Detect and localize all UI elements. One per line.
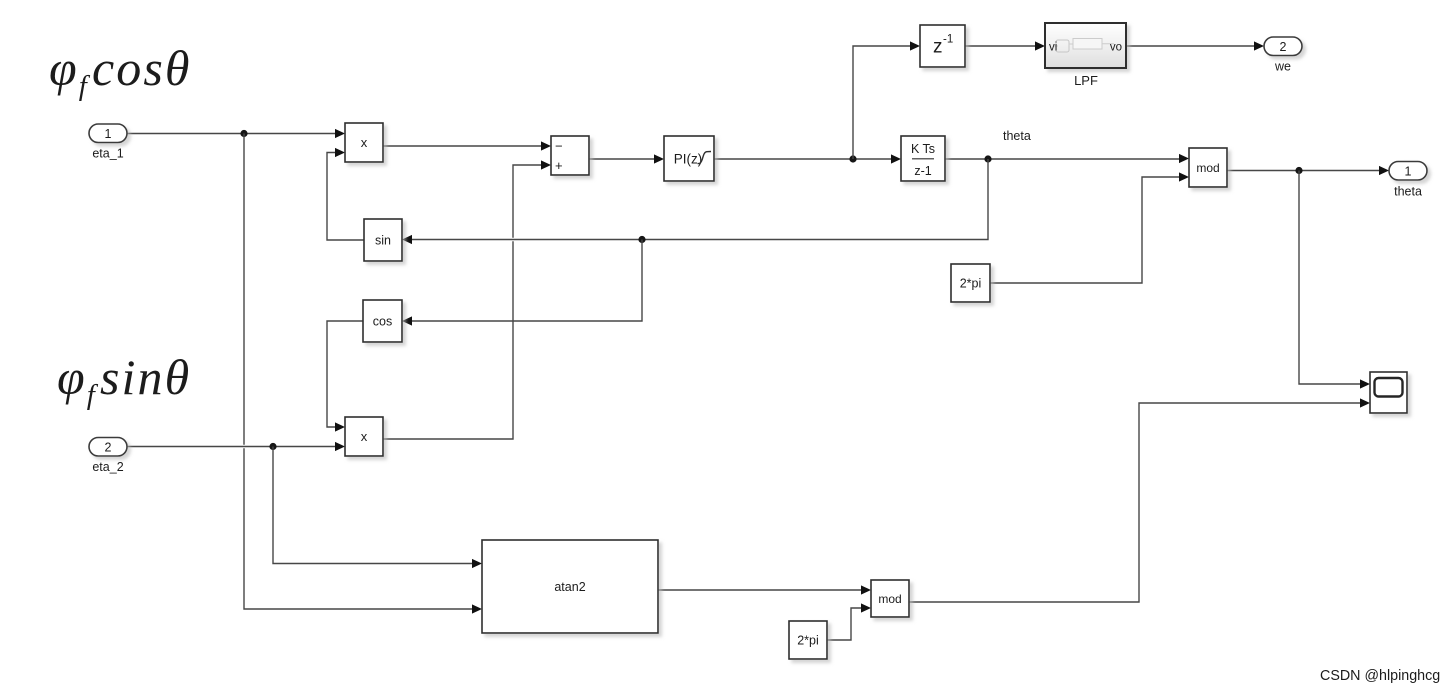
sum block: [551, 136, 589, 175]
product block X2: [345, 417, 383, 456]
svg-text:x: x: [361, 135, 368, 150]
wire LPF output to outport we: [1126, 41, 1264, 50]
junction node on eta_1 wire: [240, 130, 247, 137]
svg-text:CSDN @hlpinghcg: CSDN @hlpinghcg: [1320, 668, 1440, 684]
junction node on theta output wire: [1295, 167, 1302, 174]
wire unit delay output to LPF input: [965, 41, 1045, 50]
svg-text:φfsinθ: φfsinθ: [57, 349, 191, 411]
inport 1 eta_1: [89, 124, 127, 161]
wire sin output to product X1 input2: [327, 148, 364, 240]
svg-text:2*pi: 2*pi: [960, 277, 982, 291]
constant 2*pi second: [789, 621, 827, 659]
outport 1 theta: [1389, 162, 1427, 199]
wire eta_1 branch down to atan2 input2 (gap where it crosses eta_2 wire): [244, 134, 482, 614]
svg-text:theta: theta: [1394, 185, 1422, 199]
discrete integrator K Ts/(z-1) block: [901, 136, 945, 181]
svg-text:eta_1: eta_1: [92, 147, 123, 161]
svg-text:2: 2: [1280, 40, 1287, 54]
svg-text:φfcosθ: φfcosθ: [49, 40, 192, 102]
svg-text:atan2: atan2: [554, 580, 585, 594]
svg-text:we: we: [1274, 60, 1291, 74]
svg-text:+: +: [555, 158, 563, 173]
junction node on feedback wire: [638, 236, 645, 243]
svg-text:eta_2: eta_2: [92, 460, 123, 474]
unit delay z^-1 block: [920, 25, 965, 67]
wire eta_2 branch down to atan2 input1: [273, 447, 482, 569]
wire branch up to unit delay z-1 input: [853, 41, 920, 159]
svg-text:mod: mod: [878, 592, 901, 606]
svg-text:vi: vi: [1049, 42, 1057, 54]
svg-text:x: x: [361, 429, 368, 444]
svg-text:z: z: [933, 37, 943, 58]
mod block mod2: [871, 580, 909, 617]
svg-text:cos: cos: [373, 315, 392, 329]
PI(z) discrete PID block: [664, 136, 714, 181]
junction node on PI output wire: [849, 155, 856, 162]
cos block: [363, 300, 402, 342]
svg-text:theta: theta: [1003, 129, 1031, 143]
svg-text:−: −: [555, 139, 563, 154]
svg-text:1: 1: [105, 127, 112, 141]
wire atan2 output to mod2 input1: [658, 585, 871, 594]
wire mod2 output up to scope input2: [909, 398, 1370, 602]
wire constant 2*pi2 to mod2 input2: [827, 603, 871, 640]
wire feedback branch down to cos input: [402, 240, 642, 326]
wire mod1 output to outport theta: [1227, 166, 1389, 175]
svg-text:LPF: LPF: [1074, 73, 1098, 88]
product block X1: [345, 123, 383, 162]
svg-text:2: 2: [105, 440, 112, 454]
wire constant 2*pi to mod1 input2: [990, 172, 1189, 283]
wire branch down to scope input1: [1299, 171, 1370, 389]
wire eta_2 to product X2 input2: [127, 442, 345, 451]
svg-text:1: 1: [1405, 164, 1412, 178]
wire product X2 output to sum plus input (gap where it crosses sin wire): [383, 160, 551, 439]
wire feedback branch down and left to sin input: [402, 159, 988, 244]
svg-text:2*pi: 2*pi: [797, 634, 819, 648]
LPF subsystem block: [1045, 23, 1126, 88]
svg-text:mod: mod: [1196, 161, 1219, 175]
sin block: [364, 219, 402, 261]
junction node after K Ts output: [984, 155, 991, 162]
atan2 block: [482, 540, 658, 633]
mod block mod1: [1189, 148, 1227, 187]
svg-text:sin: sin: [375, 234, 391, 248]
wire product X1 output to sum minus input: [383, 141, 551, 150]
inport 2 eta_2: [89, 438, 127, 475]
svg-text:K Ts: K Ts: [911, 142, 935, 156]
wire K Ts output to mod1 input1: [945, 154, 1189, 163]
constant 2*pi: [951, 264, 990, 302]
svg-text:z-1: z-1: [914, 164, 931, 178]
wire eta_1 to product X1 input1: [127, 129, 345, 138]
svg-text:-1: -1: [943, 34, 953, 46]
outport 2 we: [1264, 37, 1302, 74]
wire sum output to PI(z) input: [589, 154, 664, 163]
scope block: [1370, 372, 1407, 413]
svg-text:vo: vo: [1110, 42, 1122, 54]
junction node on eta_2 wire: [269, 443, 276, 450]
wire PI(z) output to K Ts/(z-1) input: [714, 154, 901, 163]
wire cos output to product X2 input1: [327, 321, 363, 432]
